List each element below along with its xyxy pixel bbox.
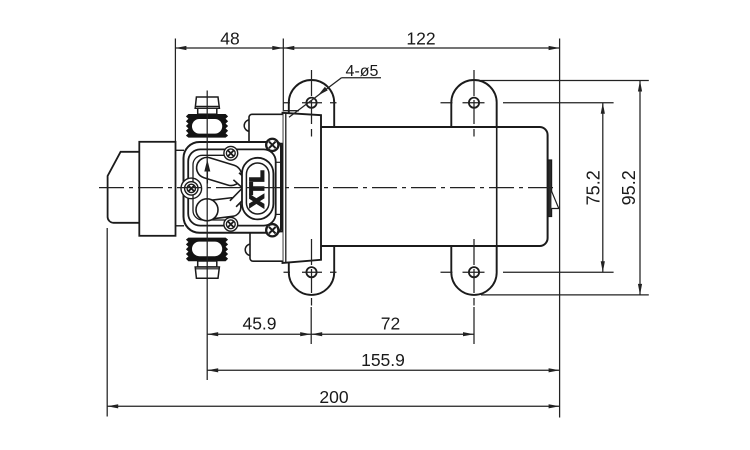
screw bottom — [224, 217, 238, 231]
svg-text:75.2: 75.2 — [584, 170, 604, 205]
XTL boss outer stadium — [242, 158, 273, 220]
screw top — [224, 146, 238, 160]
dimension 200 line — [107, 405, 559, 407]
mounting hole top-right — [469, 98, 479, 108]
svg-text:72: 72 — [381, 314, 400, 334]
svg-text:122: 122 — [406, 29, 435, 49]
centerline hole bottom-right horizontal merging into 75.2 bottom extension — [441, 271, 614, 273]
bottom chamber circle — [196, 199, 218, 221]
bracket plate — [283, 113, 322, 263]
dimension 75.2 line — [602, 103, 604, 273]
flow arrow head — [204, 160, 210, 172]
screw right-top dark — [265, 138, 280, 153]
label 4-o5 leader underline — [342, 77, 382, 79]
chamfered block left — [108, 152, 140, 223]
svg-text:4-ø5: 4-ø5 — [346, 63, 379, 80]
top fitting cap — [195, 97, 219, 108]
mounting hole top-left — [306, 98, 316, 108]
top chamber capsule — [194, 155, 244, 188]
bottom fitting ribbed collar — [186, 238, 228, 262]
bottom fitting neck — [198, 261, 217, 267]
switch housing bump bottom semicircle — [245, 244, 257, 256]
motor body — [295, 127, 548, 246]
motor body seam line — [496, 103, 498, 273]
bracket plate left edge inner line — [285, 113, 287, 263]
centerline hole top-left horizontal — [284, 102, 338, 104]
centerline hole bottom-left vertical — [311, 239, 313, 306]
dimension 72 extension line right — [473, 307, 475, 344]
head-valve connector bottom — [176, 225, 185, 227]
dimension 45.9 extension line right — [310, 307, 312, 344]
switch housing bump top semicircle — [244, 120, 256, 132]
svg-text:200: 200 — [319, 387, 348, 407]
centerline hole top-left vertical — [311, 70, 313, 137]
switch housing bump bottom — [250, 232, 283, 262]
top fitting collar hole — [192, 119, 222, 134]
top fitting ribbed collar — [186, 114, 228, 138]
svg-text:45.9: 45.9 — [242, 314, 276, 334]
dimension 95.2 line — [639, 81, 641, 295]
pump head inner cover — [188, 149, 276, 225]
dimension 122/155.9/200 shared right extension line — [559, 39, 561, 418]
terminal wire triangle — [551, 191, 558, 209]
dimension 122 line — [283, 47, 559, 49]
switch housing bump top — [249, 114, 283, 143]
mounting lug bottom-left — [289, 240, 334, 295]
left screw boss — [181, 178, 202, 199]
label 4-o5 leader line — [289, 78, 342, 118]
svg-text:155.9: 155.9 — [361, 350, 405, 370]
bottom neck band to boss — [230, 187, 250, 207]
pump head outer — [184, 142, 282, 233]
dimension 48 line — [175, 47, 283, 49]
centerline horizontal main axis — [99, 187, 557, 189]
screw right-bottom dark — [265, 223, 280, 238]
bracket plate top chamfer line — [284, 110, 299, 112]
dimension 95.2 extension line top — [481, 80, 649, 82]
svg-text:95.2: 95.2 — [619, 170, 639, 205]
screw left — [185, 182, 198, 195]
centerline hole bottom-right vertical — [473, 239, 475, 306]
top neck band to boss — [233, 173, 249, 189]
valve housing — [139, 142, 175, 236]
dimension 45.9/155.9 shared left extension line (fitting axis) — [206, 91, 208, 381]
svg-text:48: 48 — [220, 29, 239, 49]
terminal plate right — [548, 160, 552, 217]
mounting hole bottom-right — [469, 267, 479, 277]
inner cover step line bottom — [276, 213, 281, 215]
centerline hole top-right vertical — [473, 70, 475, 137]
dimension 45.9 line — [207, 333, 311, 335]
mounting lug top-right — [451, 80, 496, 135]
bottom chamber capsule — [197, 197, 242, 221]
bottom fitting collar hole — [192, 242, 222, 257]
flow arrow shaft — [206, 170, 208, 184]
XTL boss inner stadium — [246, 163, 269, 214]
centerline hole bottom-left horizontal — [284, 271, 338, 273]
bottom fitting cap line — [196, 268, 220, 270]
dimension 48 extension line right — [282, 39, 284, 112]
bottom fitting cap — [195, 267, 219, 278]
inner cavity profile line — [193, 155, 233, 220]
dimension 155.9 line — [207, 369, 559, 371]
head-valve connector top — [176, 149, 185, 151]
inner cover step line top — [276, 161, 281, 163]
dimension 200 extension line left — [106, 228, 108, 417]
dimension 72 line — [311, 333, 474, 335]
centerline hole top-right horizontal merging into 75.2 top extension — [441, 102, 614, 104]
svg-text:XTL: XTL — [247, 170, 268, 207]
dimension 48 extension line left — [174, 39, 176, 142]
top fitting neck — [198, 108, 217, 114]
dimension 95.2 extension line bottom — [481, 294, 649, 296]
mounting hole bottom-left — [306, 267, 316, 277]
mounting lug top-left — [289, 80, 334, 135]
mounting lug bottom-right — [451, 240, 496, 295]
top fitting cap line — [196, 105, 220, 107]
